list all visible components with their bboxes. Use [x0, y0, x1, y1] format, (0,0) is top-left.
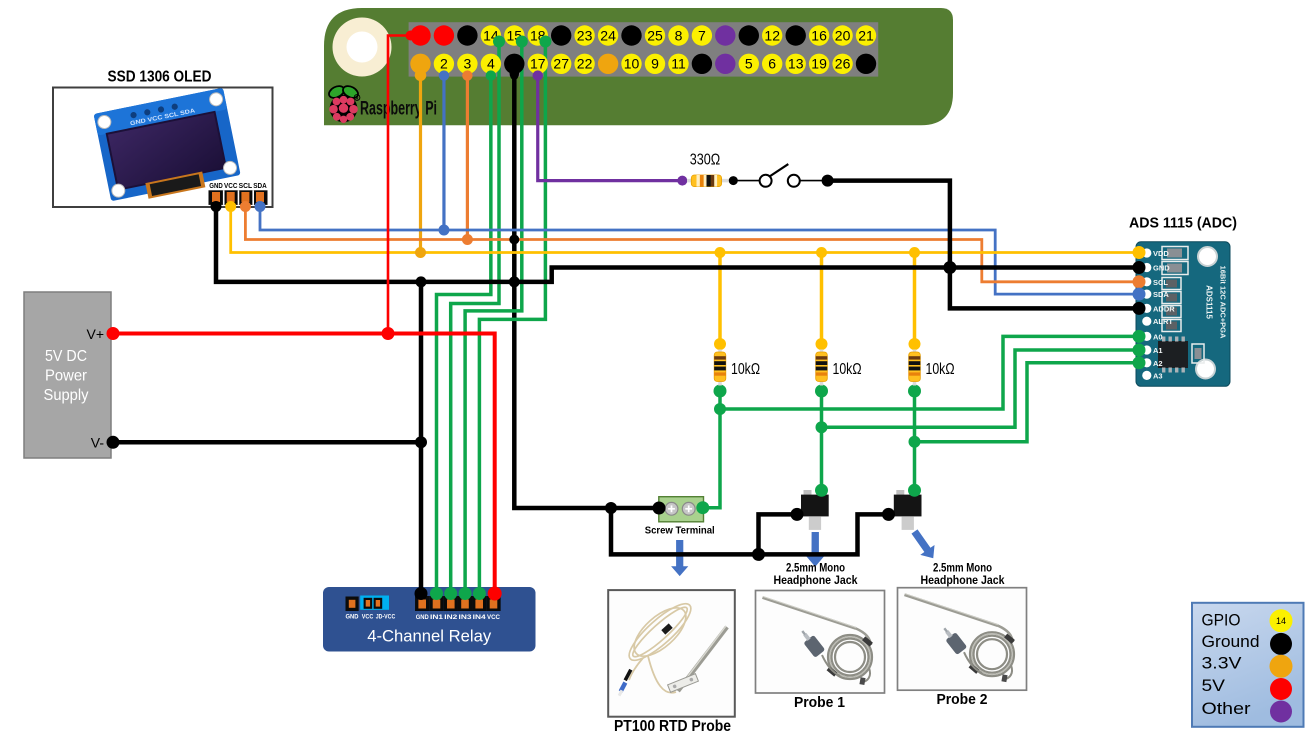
wire: GPIO14 to relay IN2 (green)	[451, 42, 499, 599]
wire: 3.3V bus to R2 (yellow)	[820, 253, 824, 345]
ground pin	[621, 25, 641, 45]
GPIO pin 10	[621, 54, 641, 74]
svg-text:10: 10	[624, 56, 640, 72]
junction V+ at Pi 5V drop	[382, 327, 395, 340]
wire: OLED GND bus to ADS GND (black)	[216, 204, 1139, 282]
5V pin	[410, 25, 430, 45]
GPIO pin 5	[739, 54, 759, 74]
5V pin	[434, 25, 454, 45]
GPIO header strip	[409, 22, 879, 76]
jack J2 arrow	[907, 527, 940, 564]
ADS SDA wire end	[1133, 288, 1146, 301]
ADS pin VDD	[1142, 248, 1151, 257]
svg-text:IN4: IN4	[473, 614, 487, 621]
ADS pin SCL	[1142, 277, 1151, 286]
node V- terminal	[107, 436, 120, 449]
ADS A2 wire end	[1133, 356, 1146, 369]
svg-text:Probe 1: Probe 1	[794, 695, 845, 711]
svg-text:19: 19	[811, 56, 827, 72]
GPIO pin 25	[645, 25, 665, 45]
svg-text:ADS 1115 (ADC): ADS 1115 (ADC)	[1129, 215, 1237, 232]
PT100 RTD probe photo box	[608, 590, 735, 717]
wire: 3.3V bus to R3 (yellow)	[913, 253, 917, 345]
resistor R1 10k ohm	[718, 350, 722, 355]
svg-text:2: 2	[440, 56, 448, 72]
junction R3/A2	[909, 436, 921, 448]
node R2 bottom	[815, 385, 828, 398]
GPIO pin 16	[809, 25, 829, 45]
GPIO pin 17	[528, 54, 548, 74]
svg-text:JD-VCC: JD-VCC	[376, 614, 396, 621]
wire: GPIO15 to relay IN3 (green)	[465, 42, 522, 599]
ADS A0 wire end	[1133, 330, 1146, 343]
resistor R2 10k ohm	[820, 350, 824, 355]
svg-text:SCL: SCL	[1153, 278, 1168, 287]
pin exit dots	[406, 31, 416, 41]
GPIO pin 7	[692, 25, 712, 45]
other pin	[715, 25, 735, 45]
junction ground bus to jacks	[605, 502, 617, 514]
ADS SCL wire end	[1133, 275, 1146, 288]
wire: GPIO18 to relay IN4 (green)	[479, 42, 545, 599]
svg-text:9: 9	[651, 56, 659, 72]
wire: ADS A0 to 10k resistor R1 / screw terminal (green)	[720, 336, 1139, 409]
svg-text:GND: GND	[1153, 264, 1170, 273]
junction 3.3V R2	[816, 247, 827, 258]
svg-text:12: 12	[764, 27, 780, 43]
GPIO pin 4	[481, 54, 501, 74]
svg-text:A1: A1	[1153, 346, 1163, 355]
ADS pin A0	[1142, 332, 1151, 341]
svg-text:16: 16	[811, 27, 827, 43]
svg-text:VCC: VCC	[224, 183, 238, 190]
screw terminal	[659, 497, 704, 522]
2.5mm mono headphone jack J2	[896, 490, 904, 496]
wire: Pi 3.3V pin drop (amber)	[419, 64, 422, 253]
GPIO pin 2	[434, 54, 454, 74]
ADS pin ADDR	[1142, 304, 1151, 313]
OLED SCL stub	[240, 201, 251, 212]
svg-text:IN1: IN1	[430, 614, 444, 621]
svg-text:V+: V+	[86, 326, 104, 342]
junction jack bus at J1 riser	[752, 548, 765, 561]
junction SDA bus	[438, 225, 449, 236]
GPIO pin 11	[668, 54, 688, 74]
jack J2 ground wire end	[882, 508, 895, 521]
ground pin	[692, 54, 712, 74]
GPIO pin 26	[832, 54, 852, 74]
probe 1 photo box	[756, 591, 885, 694]
GPIO pin 23	[574, 25, 594, 45]
GPIO pin 3	[457, 54, 477, 74]
svg-text:5V DC: 5V DC	[45, 348, 87, 365]
svg-text:Raspberry Pi: Raspberry Pi	[360, 99, 437, 120]
svg-text:Headphone Jack: Headphone Jack	[774, 575, 859, 587]
svg-text:4-Channel Relay: 4-Channel Relay	[367, 627, 491, 646]
svg-text:Supply: Supply	[44, 387, 89, 404]
svg-text:ADDR: ADDR	[1153, 304, 1175, 313]
GPIO pin 19	[809, 54, 829, 74]
svg-text:2.5mm Mono: 2.5mm Mono	[786, 563, 845, 575]
svg-text:SDA: SDA	[1153, 290, 1169, 299]
relay IN4 wire end	[473, 587, 486, 600]
svg-text:8: 8	[675, 27, 683, 43]
relay left GND pin	[346, 597, 359, 612]
3.3V pin	[410, 54, 430, 74]
svg-text:330Ω: 330Ω	[690, 152, 721, 169]
ground pin	[457, 25, 477, 45]
2.5mm mono headphone jack J1	[804, 490, 812, 496]
jack J1 ground wire end	[791, 508, 804, 521]
node R3 top	[909, 338, 921, 350]
svg-text:5: 5	[745, 56, 753, 72]
svg-text:Headphone Jack: Headphone Jack	[921, 575, 1006, 587]
svg-text:Screw Terminal: Screw Terminal	[645, 525, 715, 537]
svg-text:GND: GND	[209, 183, 223, 190]
svg-text:3.3V: 3.3V	[1202, 653, 1243, 672]
node 330R left	[677, 176, 687, 186]
GPIO pin 24	[598, 25, 618, 45]
ADS VDD wire end	[1133, 246, 1146, 259]
wire: GPIO4 to relay IN1 (green)	[437, 64, 491, 598]
svg-text:GPIO: GPIO	[1202, 611, 1241, 630]
wire: switch to ADS ADDR (black)	[828, 181, 1139, 309]
relay GND wire end	[415, 587, 428, 600]
svg-text:21: 21	[858, 27, 874, 43]
svg-text:IN3: IN3	[459, 614, 473, 621]
wire: power supply V- to ground (black)	[113, 440, 421, 445]
5V DC power supply	[24, 292, 111, 458]
svg-text:14: 14	[1276, 616, 1286, 626]
node R1 bottom	[714, 385, 727, 398]
junction V- at ground drop	[415, 436, 427, 448]
svg-text:PT100 RTD Probe: PT100 RTD Probe	[614, 718, 731, 735]
svg-text:GND: GND	[346, 614, 359, 621]
ADS pin GND	[1142, 263, 1151, 272]
resistor 330 ohm	[687, 179, 692, 183]
screw terminal arrow	[671, 540, 688, 576]
GPIO pin 13	[786, 54, 806, 74]
relay jumper block VCC JD-VCC	[360, 596, 389, 610]
svg-text:ADS1115: ADS1115	[1205, 285, 1214, 319]
wire: Pi GPIO2 SDA drop (blue)	[442, 64, 445, 230]
wire: Pi GND pin to screw terminal (black)	[514, 64, 659, 508]
GPIO pin 22	[574, 54, 594, 74]
junction 3.3V R1	[715, 247, 726, 258]
Raspberry Pi logo	[327, 84, 360, 123]
junction GND bus at relay drop	[416, 276, 427, 287]
svg-text:A3: A3	[1153, 371, 1163, 380]
svg-text:Other: Other	[1202, 699, 1251, 718]
relay IN1 wire end	[430, 587, 443, 600]
svg-text:23: 23	[577, 27, 593, 43]
other pin	[715, 54, 735, 74]
relay VCC wire end	[488, 587, 502, 601]
jack J2 signal wire end	[908, 484, 921, 497]
node R2 top	[816, 338, 828, 350]
svg-text:ALRT: ALRT	[1153, 317, 1173, 326]
svg-text:V-: V-	[91, 435, 105, 451]
svg-text:5V: 5V	[1202, 676, 1226, 695]
junction 3.3V bus	[415, 247, 426, 258]
GPIO pin 14	[481, 25, 501, 45]
svg-text:17: 17	[530, 56, 546, 72]
node R1 top	[714, 338, 726, 350]
svg-text:VCC: VCC	[487, 614, 500, 621]
svg-text:3: 3	[464, 56, 472, 72]
svg-text:13: 13	[788, 56, 804, 72]
4-channel relay module	[323, 587, 536, 652]
ADS pin SDA	[1142, 290, 1151, 299]
ground pin	[551, 25, 571, 45]
ADS pin A1	[1142, 345, 1151, 354]
SSD1306 OLED module box	[53, 88, 273, 208]
wire: 3.3V bus to R1 (yellow)	[718, 253, 722, 345]
ADS pin ALRT	[1142, 317, 1151, 326]
svg-text:2.5mm Mono: 2.5mm Mono	[933, 563, 992, 575]
junction SCL bus	[462, 234, 473, 245]
wire: SDA bus OLED to ADS (blue)	[260, 204, 1139, 294]
junction 3.3V R3	[909, 247, 920, 258]
svg-text:7: 7	[698, 27, 706, 43]
ADS pin A3	[1142, 371, 1151, 380]
resistor R3 10k ohm	[913, 350, 917, 355]
svg-text:GND: GND	[416, 614, 429, 621]
svg-text:VCC: VCC	[362, 614, 374, 621]
junction R2/A1	[816, 421, 828, 433]
svg-text:VDD: VDD	[1153, 249, 1169, 258]
svg-text:27: 27	[553, 56, 569, 72]
svg-text:25: 25	[647, 27, 663, 43]
screw terminal left wire end	[653, 502, 666, 515]
OLED pin header connector	[209, 190, 268, 205]
wire: SCL bus OLED to ADS (orange)	[245, 204, 1139, 282]
svg-text:16Bit 12C ADC+PGA: 16Bit 12C ADC+PGA	[1219, 266, 1228, 339]
svg-text:R: R	[356, 96, 359, 101]
svg-text:10kΩ: 10kΩ	[926, 361, 955, 378]
svg-text:20: 20	[835, 27, 851, 43]
node R3 bottom	[908, 385, 921, 398]
wire: GPIO17 to 330 ohm resistor (purple)	[538, 64, 683, 181]
relay input pins	[415, 596, 429, 611]
svg-text:24: 24	[600, 27, 616, 43]
wire: ADS A1 to 10k resistor R2 / jack J1 (green)	[822, 350, 1140, 427]
svg-text:SSD 1306 OLED: SSD 1306 OLED	[108, 69, 212, 86]
3.3V pin	[598, 54, 618, 74]
OLED module photo	[94, 88, 242, 206]
svg-text:A0: A0	[1153, 332, 1163, 341]
wire: Pi GPIO3 SCL drop (orange)	[466, 64, 469, 240]
wire: 3.3V bus OLED VCC to ADS VDD (yellow)	[231, 204, 1139, 253]
svg-text:26: 26	[835, 56, 851, 72]
junction GND bus at Pi GND drop	[509, 276, 520, 287]
ADS ADDR wire end	[1133, 302, 1146, 315]
svg-text:4: 4	[487, 56, 495, 72]
svg-text:Probe 2: Probe 2	[937, 692, 988, 708]
switch S1	[729, 176, 738, 185]
svg-text:11: 11	[671, 56, 686, 72]
svg-text:22: 22	[577, 56, 593, 72]
svg-text:SDA: SDA	[253, 183, 267, 190]
GPIO pin 9	[645, 54, 665, 74]
GPIO pin 6	[762, 54, 782, 74]
GPIO pin 15	[504, 25, 524, 45]
junction GND bus at switch wire	[943, 261, 956, 274]
Raspberry Pi board U1	[324, 8, 953, 125]
ground pin	[504, 54, 524, 74]
legend box	[1192, 603, 1304, 727]
wire: Pi 5V pin jumper (red)	[388, 36, 411, 334]
OLED GND stub	[211, 201, 222, 212]
wire: power supply V+ to relay VCC (red)	[113, 334, 495, 599]
relay IN3 wire end	[459, 587, 472, 600]
OLED SDA stub	[255, 201, 266, 212]
jack J1 signal wire end	[815, 484, 828, 497]
probe 2 photo box	[898, 588, 1027, 691]
GPIO pin 18	[528, 25, 548, 45]
node V+ terminal	[107, 327, 120, 340]
svg-text:10kΩ: 10kΩ	[833, 361, 862, 378]
GPIO pin 12	[762, 25, 782, 45]
svg-text:10kΩ: 10kΩ	[731, 361, 760, 378]
wire: ground bus to headphone jacks (black)	[611, 508, 889, 554]
ADS pin A2	[1142, 358, 1151, 367]
ADS A1 wire end	[1133, 344, 1146, 357]
svg-text:Power: Power	[45, 368, 88, 385]
OLED VCC stub	[225, 201, 236, 212]
jack J1 arrow	[806, 532, 823, 567]
GPIO pin 8	[668, 25, 688, 45]
svg-text:SCL: SCL	[239, 183, 253, 190]
junction R1/A0	[714, 403, 726, 415]
GPIO pin 20	[832, 25, 852, 45]
junction GND/SCL crossing dot	[509, 235, 519, 245]
GPIO pin 27	[551, 54, 571, 74]
svg-text:6: 6	[768, 56, 776, 72]
Pi mounting hole	[333, 18, 392, 77]
ADS1115 ADC module U2	[1136, 242, 1230, 386]
GPIO pin 21	[856, 25, 876, 45]
relay IN2 wire end	[444, 587, 457, 600]
svg-text:A2: A2	[1153, 359, 1163, 368]
wire: ADS A2 to 10k resistor R3 / jack J2 (green)	[915, 363, 1140, 442]
wire: ground vertical to relay GND (black)	[419, 282, 424, 598]
ground pin	[856, 54, 876, 74]
svg-text:IN2: IN2	[444, 614, 458, 621]
screw terminal right wire end	[696, 501, 709, 514]
ground pin	[786, 25, 806, 45]
ground pin	[739, 25, 759, 45]
svg-text:Ground: Ground	[1202, 632, 1260, 651]
ADS GND wire end	[1133, 261, 1146, 274]
